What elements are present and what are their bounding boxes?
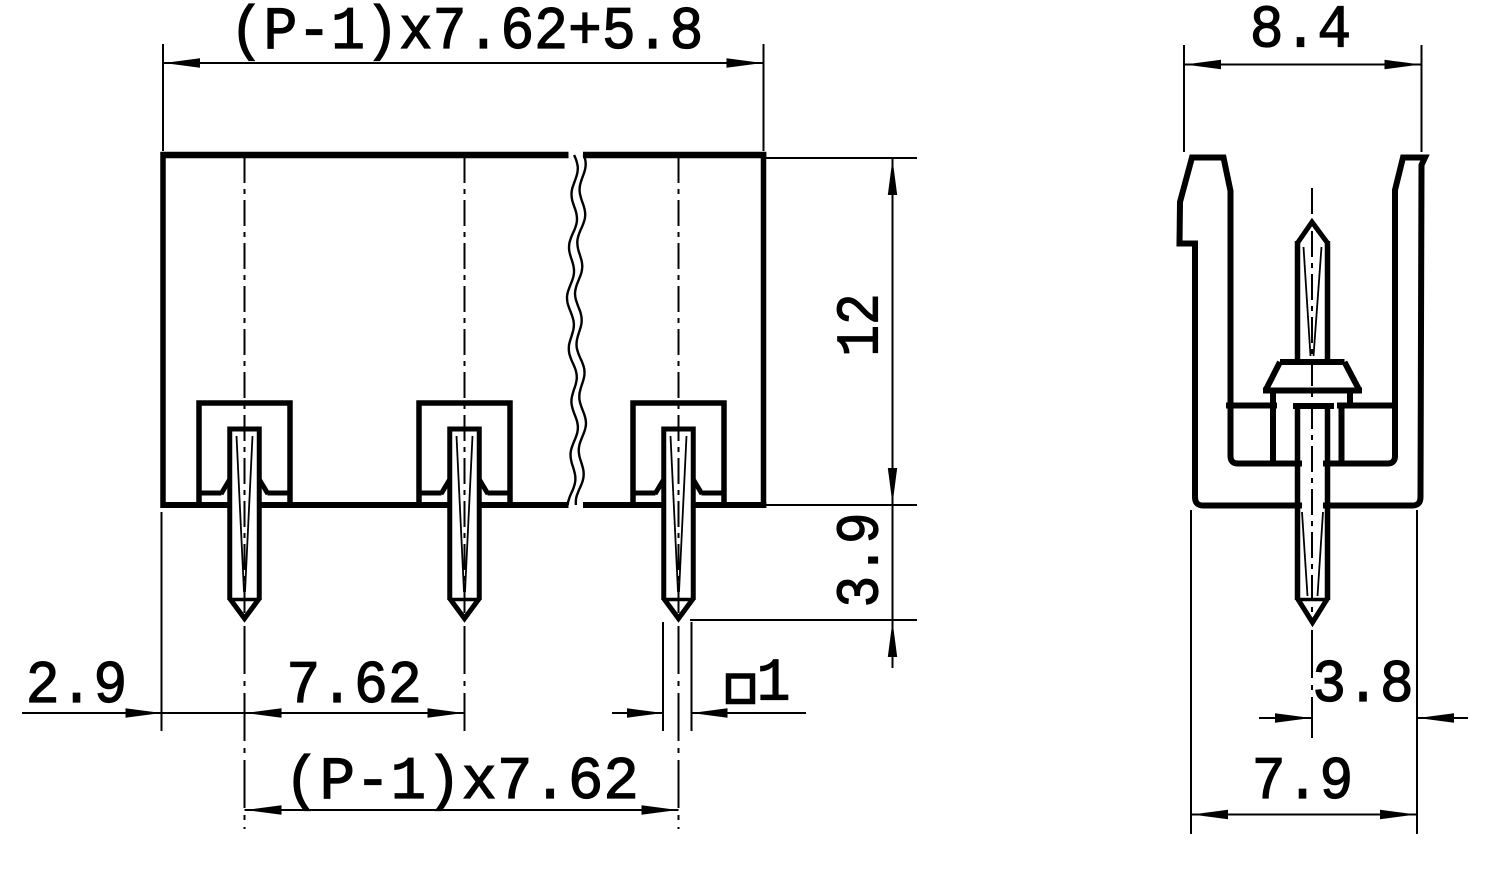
side pin center line [1311, 188, 1313, 738]
dim 3.8 line [1259, 717, 1468, 719]
svg-text:(P-1)x7.62: (P-1)x7.62 [284, 748, 639, 817]
svg-text:8.4: 8.4 [1250, 0, 1352, 65]
side pin upper taper [1304, 247, 1322, 356]
pin 2 housing box [417, 401, 513, 506]
dim 3.8 arrow left [1275, 713, 1311, 722]
dim 8.4 extension left [1183, 45, 1185, 152]
dim 7.62 arrow left [246, 708, 282, 717]
svg-text:7.62: 7.62 [286, 654, 421, 721]
dim 7.9 label [1252, 750, 1354, 817]
svg-text:2.9: 2.9 [26, 654, 128, 721]
dim 3.9 arrow [888, 621, 897, 657]
dim 8.4 extension right [1421, 45, 1423, 152]
pin 1 inner taper [237, 436, 253, 592]
pin 3 tip [664, 599, 694, 619]
svg-text:(P-1)x7.62+5.8: (P-1)x7.62+5.8 [230, 0, 704, 67]
side right cavity wall [1342, 389, 1351, 464]
dim 8.4 arrow left [1185, 60, 1221, 69]
dim 12 extension bottom [766, 504, 917, 506]
side left cavity wall [1270, 389, 1276, 464]
dim 12 arrow top [888, 159, 897, 195]
dim 2.9 arrow left [126, 708, 162, 717]
dim 7.9 extension right [1416, 510, 1418, 834]
dim 12 line [892, 158, 894, 668]
dim 12 label [828, 293, 896, 356]
break line left [567, 155, 578, 505]
body left edge [160, 152, 166, 508]
dim 12 extension top [766, 157, 917, 159]
dim sq1 extension left [662, 622, 664, 731]
dim sq1 label [757, 651, 791, 718]
top dim arrow right [727, 58, 763, 67]
svg-text:3.8: 3.8 [1312, 653, 1414, 720]
side pin shaft [1298, 241, 1328, 600]
pin 1 center line [244, 157, 246, 829]
dim 7.9 arrow left [1192, 810, 1228, 819]
side pin slot cap [1293, 403, 1334, 409]
top dim extension left [162, 44, 164, 151]
side channel floor [1226, 403, 1397, 409]
dim 3.8 label [1312, 653, 1414, 720]
dim 7.9 line [1191, 814, 1417, 816]
dim 12 arrow bottom [888, 468, 897, 504]
dim 3.8 arrow right [1418, 713, 1454, 722]
top dim label [230, 0, 704, 67]
pin 1 housing box [197, 401, 293, 506]
svg-text:12: 12 [828, 293, 896, 356]
pin 2 center line [464, 157, 466, 731]
dim 7.9 extension left [1190, 510, 1192, 834]
side left wall [1180, 158, 1300, 506]
pin 1 housing bottom [201, 479, 289, 494]
top dim extension right [763, 44, 765, 151]
pin 2 inner taper [457, 436, 473, 592]
dim 2.9 extension [161, 512, 163, 731]
dim 2.9 label [26, 654, 128, 721]
dim pitch label [284, 748, 639, 817]
dim 3.9 label [828, 512, 896, 607]
dim 7.62 arrow right [428, 708, 464, 717]
side right wall [1326, 158, 1425, 506]
body bottom edge [161, 502, 767, 508]
top dim arrow left [164, 58, 200, 67]
dim 2.9/7.62 line [22, 712, 465, 714]
pin 2 tip [450, 599, 480, 619]
dim 7.62 label [286, 654, 421, 721]
side pin lower taper [1302, 512, 1323, 596]
pin 3 housing box [631, 401, 727, 506]
dim 8.4 label [1250, 0, 1352, 65]
pin 3 inner taper [671, 436, 687, 592]
dim sq1 extension right [691, 622, 693, 731]
body right edge [761, 152, 767, 508]
dim 8.4 line [1184, 64, 1422, 66]
dim sq1 arrow right [692, 708, 728, 717]
svg-text:3.9: 3.9 [828, 512, 896, 607]
pin 3 shaft [662, 427, 696, 601]
dim 8.4 arrow right [1385, 60, 1421, 69]
break line right [575, 155, 586, 505]
dim sq1 square symbol [729, 676, 753, 702]
pin 3 housing bottom [635, 479, 723, 494]
dim sq1 line [612, 712, 806, 714]
side pin tip cone [1298, 222, 1328, 243]
pin 3 center line [678, 157, 680, 829]
side pedestal [1263, 362, 1362, 391]
dim sq1 arrow left [627, 708, 663, 717]
dim pitch line [245, 809, 679, 811]
svg-text:7.9: 7.9 [1252, 750, 1354, 817]
svg-text:1: 1 [757, 651, 791, 718]
body top edge [161, 152, 767, 159]
dim 7.9 arrow right [1380, 810, 1416, 819]
pin 1 shaft [228, 427, 262, 601]
dim 3.9 extension bottom [690, 619, 917, 621]
dim pitch arrow right [642, 805, 678, 814]
pin 1 tip [230, 599, 260, 619]
pin 2 shaft [448, 427, 482, 601]
top dim line [163, 62, 764, 64]
dim pitch arrow left [246, 805, 282, 814]
side pin bottom tip [1298, 599, 1328, 623]
pin 2 housing bottom [421, 479, 509, 494]
